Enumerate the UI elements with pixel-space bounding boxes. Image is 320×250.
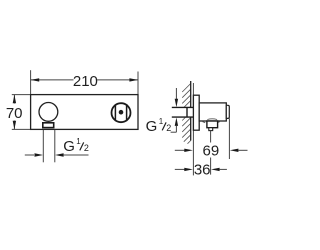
end cap xyxy=(226,105,229,118)
outlet foot xyxy=(209,128,213,131)
holder ball circle xyxy=(39,103,58,122)
outlet boss chamfer left xyxy=(202,122,205,123)
dimension 69 right extension line xyxy=(228,119,230,160)
svg-text:G: G xyxy=(0,0,12,4)
dimension 70 extension lines xyxy=(12,94,30,96)
G 1/2 label (side) xyxy=(146,117,172,135)
knob chord line right xyxy=(126,104,128,121)
wall line xyxy=(190,81,192,107)
G 1/2 thread down arrow (side) xyxy=(175,88,177,100)
dimension 210 extension lines xyxy=(30,70,32,94)
G 1/2 thread up arrow with leader (side) xyxy=(175,118,178,126)
G 1/2 left arrow (front) xyxy=(25,154,34,156)
flange face / dimension extension line xyxy=(192,83,194,175)
dimension 36 right arrow xyxy=(211,168,220,171)
dimension 69 right arrow xyxy=(230,149,239,152)
knob chord line left xyxy=(114,104,116,121)
svg-text:70: 70 xyxy=(6,105,23,122)
pipe stub xyxy=(172,108,193,117)
dimension 36 left arrow xyxy=(175,168,185,170)
G 1/2 label (front) xyxy=(0,0,26,4)
outlet xyxy=(207,118,217,121)
wall hatching xyxy=(182,84,191,144)
outlet xyxy=(207,121,218,128)
flange xyxy=(193,95,199,130)
dimension 210 line xyxy=(31,79,74,81)
svg-text:210: 210 xyxy=(73,73,98,90)
dimension 36 right extension line (outlet centerline) xyxy=(210,131,212,143)
svg-text:2: 2 xyxy=(21,0,26,2)
dimension 210 arrowheads xyxy=(31,78,40,81)
body xyxy=(199,103,226,121)
dimension 69 left arrow xyxy=(175,149,185,151)
outlet boss chamfer right xyxy=(217,122,220,123)
G 1/2 extension lines (front) xyxy=(42,130,44,162)
svg-text:69: 69 xyxy=(203,143,220,160)
G 1/2 right arrow with leader (front) xyxy=(55,153,64,156)
knob center dot xyxy=(119,110,124,115)
mounting plate xyxy=(31,95,138,130)
dimension 70 arrowheads xyxy=(13,95,16,104)
dimension 70 line xyxy=(13,95,15,104)
hose connection nut xyxy=(43,123,54,128)
svg-text:36: 36 xyxy=(194,162,211,179)
knob outer circle xyxy=(112,103,131,122)
